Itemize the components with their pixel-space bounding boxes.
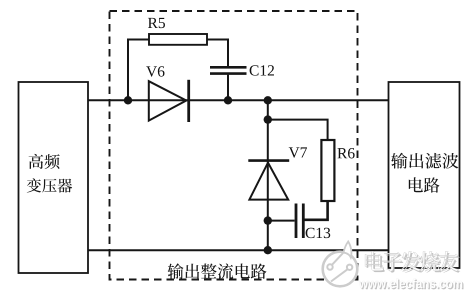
watermark logo (elecfans sprout-plug icon) <box>323 242 358 287</box>
label R5 <box>148 18 158 28</box>
wire: C12 bottom down to top rail <box>227 75 229 101</box>
wire: from node D right and down to R6 <box>268 120 328 140</box>
resistor R5 <box>149 34 207 45</box>
wire: from node E right to C13 left plate <box>268 220 295 222</box>
label V7 <box>289 147 300 157</box>
resistor R6 <box>321 140 334 201</box>
label C13 <box>306 228 315 238</box>
label: 高频变压器 (high-frequency transformer) <box>27 154 72 193</box>
label R6 <box>337 148 347 158</box>
label: 输出滤波电路 (output filter circuit) <box>391 153 458 193</box>
node E (junction dot, split to C13) <box>264 216 272 224</box>
wire: bottom rail from transformer to filter box <box>88 249 389 251</box>
watermark text: www.elecfans.com <box>359 278 464 289</box>
watermark text: 电子发烧友 <box>365 251 460 272</box>
node B (junction dot, right of C12 branch) <box>224 96 232 104</box>
wire: V7 branch riser from top rail to bottom rail <box>267 100 269 250</box>
label V6 <box>146 66 157 76</box>
wire: top rail from transformer to filter box <box>88 99 389 101</box>
capacitor C12 <box>210 67 247 73</box>
label C12 <box>250 65 259 75</box>
node F (junction dot on bottom rail) <box>264 246 272 254</box>
capacitor C13 <box>296 204 303 239</box>
node C (junction dot, V7 branch top) <box>264 96 272 104</box>
block: output filter circuit box <box>389 82 460 268</box>
diode V6 (series on top rail) <box>149 80 189 122</box>
diode V7 (vertical, cathode bar up) <box>248 161 289 200</box>
dashed box: output rectifier circuit enclosure <box>110 11 358 280</box>
block: high-frequency transformer box <box>19 82 89 273</box>
wire: R5 right to C12 top <box>207 40 228 67</box>
node A (junction dot, left of V6) <box>124 96 132 104</box>
label: 输出整流电路 (output rectifier circuit) <box>168 263 267 279</box>
wire: left riser from node A up to R5 <box>128 40 149 101</box>
node D (junction dot, split to R6) <box>264 115 272 123</box>
wire: R6 bottom down and left to C13 right plate <box>305 201 328 220</box>
